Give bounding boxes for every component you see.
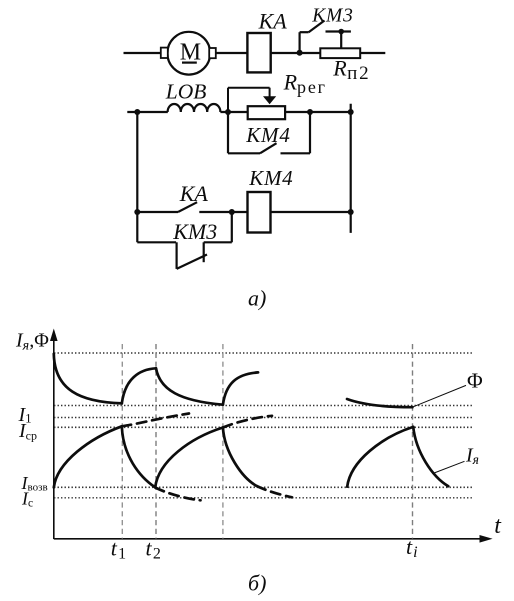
wire row2 left stub: [127, 111, 168, 113]
inductor LOB: [168, 104, 221, 112]
wire row1 right: [360, 52, 385, 54]
current drop 2 solid: [223, 428, 257, 487]
flux curve segment A: [54, 354, 448, 501]
label KA row3: [179, 181, 209, 206]
current drop 3: [413, 427, 448, 486]
y-axis: [50, 329, 58, 540]
node row3 left: [134, 209, 140, 215]
GRAPH: [50, 329, 493, 543]
flux curve final decay: [347, 399, 412, 407]
flux curve rise t1-t2: [122, 368, 156, 403]
node row3 right: [348, 209, 354, 215]
resistor Rрег: [248, 106, 285, 119]
motor M: [161, 32, 216, 75]
label KM3 row1: [311, 6, 354, 27]
label Rрег: [283, 69, 327, 97]
dotted level line Ic: [54, 497, 473, 499]
node row1: [297, 50, 303, 56]
wire coil to right rail: [271, 211, 351, 213]
left rail wire: [136, 112, 138, 242]
dotted level line Phi-min: [54, 405, 473, 407]
svg-text:t: t: [494, 513, 502, 539]
label KM4 row3: [248, 166, 293, 190]
motor underline: [182, 61, 197, 63]
svg-text:КА: КА: [258, 8, 288, 33]
dotted level line I1: [54, 417, 473, 419]
current drop 1: [122, 426, 155, 487]
current dashed extension t1: [122, 414, 189, 427]
motor label М: [180, 39, 201, 65]
contact KM4 row2: [228, 112, 310, 153]
contact KM3 row1: [300, 21, 351, 53]
label LOB: [165, 79, 207, 103]
right rail wire: [350, 104, 352, 233]
dotted level line Icp: [54, 426, 473, 428]
contactor coil KM4: [248, 192, 271, 233]
node row2 mid: [225, 109, 231, 115]
wiper arm of Rрег: [228, 88, 276, 112]
current rise 1: [54, 426, 122, 487]
node row2 left: [134, 109, 140, 115]
dotted level line top: [54, 352, 473, 354]
label KA: [258, 8, 288, 33]
svg-text:КМ3: КМ3: [172, 219, 217, 244]
dashed vertical t2: [155, 344, 157, 539]
wire motor to KA: [216, 52, 248, 54]
wire row1 left: [124, 52, 162, 54]
wire inductor to Rрег: [220, 111, 247, 113]
contact KA row3: [137, 202, 248, 212]
node row2 right of Rрег: [307, 109, 313, 115]
svg-text:КМ3: КМ3: [311, 6, 354, 27]
x-axis: [54, 535, 493, 543]
svg-text:Iя,Φ: Iя,Φ: [15, 329, 49, 353]
wire Rрег to right rail: [285, 111, 351, 113]
current dashed extension t3: [223, 416, 272, 428]
svg-text:Iя: Iя: [465, 445, 479, 468]
current dashed tail after t2: [155, 488, 200, 501]
label KM4 row2: [245, 123, 291, 147]
svg-text:а): а): [248, 286, 266, 311]
dashed vertical ti: [412, 344, 414, 539]
current rise 3: [347, 427, 413, 487]
label Rп2: [332, 56, 370, 85]
flux curve decay t2-t3: [156, 368, 223, 404]
contact KM3 row3: [137, 212, 232, 269]
wire KA to Rп2: [271, 52, 321, 54]
svg-text:Rрег: Rрег: [283, 69, 327, 97]
dashed vertical t1: [121, 344, 123, 539]
svg-text:КМ4: КМ4: [248, 166, 293, 190]
node row3 mid: [229, 209, 235, 215]
svg-text:КМ4: КМ4: [245, 123, 291, 147]
flux curve rise after t3: [223, 372, 258, 404]
svg-text:Rп2: Rп2: [332, 56, 370, 85]
svg-text:б): б): [248, 571, 266, 596]
dotted level line Iвозв: [54, 486, 473, 488]
svg-text:Φ: Φ: [467, 369, 483, 393]
svg-text:КА: КА: [179, 181, 209, 206]
label KM3 row3: [172, 219, 217, 244]
resistor Rп2: [320, 48, 360, 58]
relay coil KA: [247, 33, 270, 72]
dashed vertical t3: [222, 344, 224, 539]
node row2 right rail: [348, 109, 354, 115]
current rise 2: [155, 428, 223, 488]
pointer line Iя: [433, 461, 465, 473]
svg-text:LOB: LOB: [165, 79, 207, 103]
current drop 2 dashed tail: [257, 486, 292, 497]
pointer line Phi: [413, 385, 466, 406]
